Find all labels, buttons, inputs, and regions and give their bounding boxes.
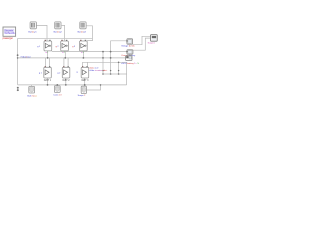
wire phase join [103, 73, 127, 75]
svg-text:Battery2: Battery2 [54, 31, 63, 34]
wire igbt2 bottom pin [65, 78, 67, 85]
svg-text:Scope1: Scope1 [148, 42, 156, 44]
igbt Q2 [57, 66, 70, 82]
wire [18, 25, 151, 90]
wire DC plus line [18, 37, 93, 39]
display block S3 [121, 56, 139, 65]
junction (17.6,57.9) [17, 57, 19, 59]
wire scope input 1 [133, 36, 151, 44]
svg-text:IGBT 3: IGBT 3 [81, 80, 89, 82]
meas block C [78, 86, 87, 97]
wire igbt1 top pins [45, 58, 49, 67]
wire igbt1 bottom pin [47, 78, 49, 85]
junction (83.4,57.9) [83, 57, 85, 59]
junction (110.6,74) [110, 73, 112, 75]
junction (84.7,84.9) [84, 84, 86, 86]
svg-text:Scope 2: Scope 2 [78, 95, 86, 97]
junction (47.6,57.9) [47, 57, 49, 59]
wire igbt3 right top pin [86, 62, 88, 67]
converter M2 [56, 40, 69, 54]
svg-text:Batt meas: Batt meas [27, 94, 36, 97]
svg-text:Battery1: Battery1 [28, 31, 37, 34]
junction (103,51.6) [102, 51, 104, 53]
battery U2 [54, 22, 63, 34]
wire converter2 bottom pin [64, 51, 66, 58]
svg-text:Voltage dc link: Voltage dc link [121, 45, 135, 48]
svg-text:IGBT 2: IGBT 2 [62, 80, 70, 82]
ground block B [53, 86, 62, 97]
igbt Q1 [39, 66, 52, 82]
junction (103,57.9) [102, 57, 104, 59]
scope S4 top right [148, 35, 158, 45]
junction (110.6,70.6) [110, 70, 111, 71]
svg-text:<SOC battery 1> %: <SOC battery 1> % [121, 62, 139, 65]
junction (65.8,84.9) [65, 84, 67, 86]
wire ground B pin [56, 84, 58, 87]
converter M1 [37, 40, 52, 54]
wire phase a drop [102, 52, 104, 74]
svg-text:Ts=5e-06s: Ts=5e-06s [4, 32, 16, 35]
svg-text:Conv ctrl: Conv ctrl [53, 94, 62, 97]
junction (100.5,84.9) [100, 84, 102, 86]
wire battery1 to converter1 [36, 25, 47, 40]
wire converter1 bottom pin [47, 51, 49, 58]
wire igbt2 top pins [64, 58, 68, 67]
junction (17.6,55.2) [17, 54, 19, 56]
junction (118.6,70.6) [118, 70, 119, 71]
junction dots [17, 51, 120, 91]
wire row1 feed riser [111, 41, 127, 74]
powergui block [3, 27, 17, 40]
wire measurement line [52, 51, 127, 53]
junction (103,70.6) [102, 70, 103, 71]
junction (118.6,62.3) [118, 62, 120, 64]
wire converter3 bottom pin [82, 51, 84, 58]
wire igbt3 bottom pin [84, 78, 86, 86]
junction (65.3,57.9) [64, 57, 66, 59]
junction (47.5,84.9) [47, 84, 49, 86]
wire bus [18, 57, 126, 59]
svg-text:<Vabc inverter abc>: <Vabc inverter abc> [89, 69, 108, 72]
wire left rail [17, 38, 19, 85]
junction (110.6,57.9) [110, 57, 112, 59]
junction (110.6,51.6) [110, 51, 112, 53]
wire meas block C output [86, 85, 100, 90]
battery U1 [28, 22, 37, 34]
wire bottom rail [18, 84, 127, 86]
ground block A [27, 86, 36, 97]
scope block S1 [121, 39, 135, 48]
svg-text:<Vbattery>: <Vbattery> [20, 56, 31, 59]
wire scope input 2 [133, 38, 151, 50]
junction (17.8,87.7) [17, 87, 19, 89]
junction (17.8,90.1) [17, 89, 19, 91]
svg-text:IGBT 1: IGBT 1 [44, 80, 52, 82]
battery U3 [78, 22, 87, 34]
wire battery3 to converter3 [86, 26, 92, 41]
wire inverter output [83, 62, 127, 85]
wire ground A pin [31, 85, 33, 87]
scope block S2 [121, 50, 136, 57]
svg-text:Battery3: Battery3 [78, 31, 87, 34]
wire phase c drop [118, 62, 120, 74]
converter M3 [72, 40, 87, 54]
igbt Q3 [77, 66, 90, 82]
wire battery2 to converter2 [62, 25, 65, 40]
junction (57.3,84.9) [56, 84, 58, 86]
svg-text:powergui: powergui [3, 37, 14, 40]
junction (103,74) [102, 73, 104, 75]
junction (118.6,74) [118, 73, 120, 75]
